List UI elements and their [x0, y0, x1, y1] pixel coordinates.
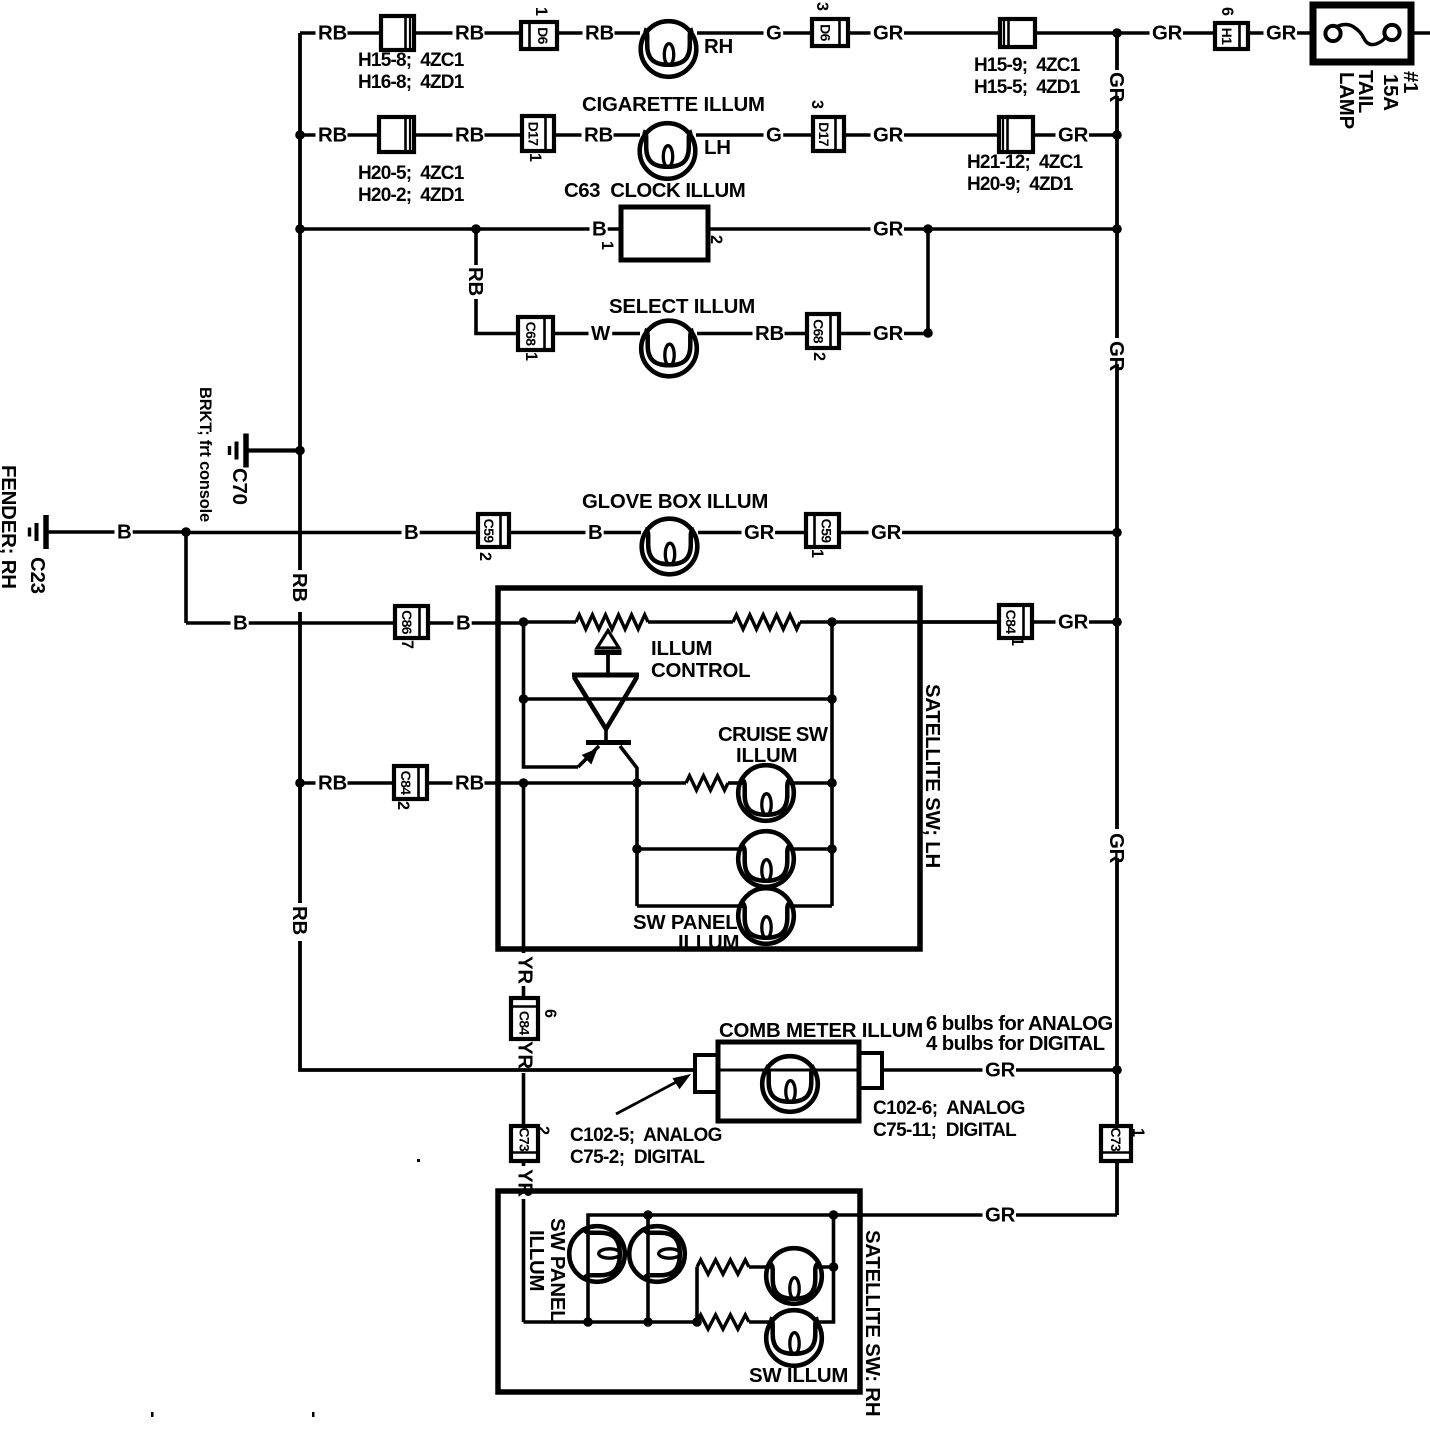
wire label GR row1 b	[1150, 26, 1184, 43]
svg-text:C23: C23	[26, 557, 48, 594]
wire label B near C23	[115, 525, 133, 542]
wire label GR row3	[871, 222, 905, 239]
ground C23 FENDER RH	[30, 515, 47, 549]
svg-text:GR: GR	[1058, 125, 1089, 147]
svg-text:RH: RH	[704, 36, 733, 58]
connector C84 pin6	[511, 998, 538, 1039]
wire to C59-2	[186, 531, 478, 535]
svg-text:3: 3	[808, 100, 826, 109]
svg-text:G: G	[766, 23, 782, 45]
svg-text:CIGARETTE ILLUM: CIGARETTE ILLUM	[582, 94, 765, 116]
wire collector riser x=637	[635, 783, 639, 906]
svg-text:GR: GR	[1105, 72, 1127, 103]
wire bulb glove to C59-1	[698, 531, 806, 535]
wire label RB row2 b	[453, 128, 485, 145]
svg-text:1: 1	[532, 7, 550, 16]
junction row2/V3	[1112, 130, 1122, 140]
wire R3 to bulb cruise	[728, 781, 744, 785]
wire corner to bulb sw3	[637, 904, 744, 908]
wire label B glove b	[586, 525, 604, 542]
svg-text:C59: C59	[819, 519, 835, 544]
wire label GR glove b	[869, 525, 903, 542]
junction riser/bulb2 row	[632, 844, 642, 854]
fuse connector H1	[1215, 23, 1248, 49]
svg-text:1: 1	[522, 352, 540, 361]
bulb cigarette LH	[640, 123, 696, 179]
wire RB row from V1 to C84-2	[300, 781, 394, 785]
bulb tail lamp RH	[641, 21, 697, 77]
connector D17 pin3	[813, 117, 844, 151]
wire clock pin2 to junction	[708, 227, 928, 231]
svg-text:SW ILLUM: SW ILLUM	[749, 1365, 848, 1387]
wire label B glove a	[402, 525, 420, 542]
wire H15-8 to D6	[414, 31, 521, 35]
connector C59 pin2	[478, 514, 509, 547]
svg-text:2: 2	[394, 801, 412, 810]
svg-text:GR: GR	[873, 219, 904, 241]
svg-text:6 bulbs for ANALOG: 6 bulbs for ANALOG	[926, 1013, 1113, 1035]
junction mid wire right	[827, 694, 837, 704]
speck noise c	[312, 1412, 315, 1417]
svg-text:H20-2; 4ZD1: H20-2; 4ZD1	[358, 185, 465, 206]
connector H15-8	[381, 16, 414, 50]
svg-text:H20-9; 4ZD1: H20-9; 4ZD1	[967, 174, 1074, 195]
wire bulb3 to right riser	[788, 904, 832, 908]
svg-text:7: 7	[398, 640, 416, 649]
svg-text:RB: RB	[464, 267, 486, 296]
svg-text:H20-5; 4ZC1: H20-5; 4ZC1	[358, 163, 465, 184]
svg-text:LH: LH	[704, 137, 731, 159]
junction row3/RB drop	[471, 224, 481, 234]
junction glove/V3	[1112, 528, 1122, 538]
svg-text:YR: YR	[514, 956, 536, 984]
svg-text:C68: C68	[811, 319, 827, 344]
wire RB row inside box	[524, 781, 638, 785]
wire C86 to satellite LH	[428, 621, 523, 625]
wire satellite LH to C84-1	[920, 620, 999, 624]
svg-text:GR: GR	[1105, 341, 1127, 372]
junction V1/RB row	[295, 778, 305, 788]
connector D6 pin3	[812, 19, 848, 46]
wire top rail	[588, 1215, 835, 1322]
connector D17 pin1	[522, 116, 554, 151]
arrow pointer to C102-5	[616, 1074, 691, 1114]
wire C70 to V1	[246, 448, 300, 452]
svg-text:15A: 15A	[1379, 74, 1401, 111]
svg-text:RB: RB	[585, 23, 614, 45]
svg-text:GR: GR	[1152, 23, 1183, 45]
svg-text:SATELLITE SW: RH: SATELLITE SW: RH	[861, 1230, 883, 1416]
bulb sw panel illum 3	[738, 888, 794, 944]
resistor R3 cruise	[686, 776, 728, 790]
wire V3 right main GR vertical (x=1117)	[1115, 33, 1119, 1215]
wire R2 out to C84-1	[800, 620, 999, 624]
svg-text:D17: D17	[816, 122, 832, 147]
bulb sw panel A	[569, 1226, 625, 1282]
wire YR entry to bottom rail	[524, 1320, 698, 1324]
clock C63 box	[621, 207, 708, 260]
svg-text:RB: RB	[455, 773, 484, 795]
svg-text:B: B	[592, 219, 607, 241]
bulb select illum	[641, 321, 697, 377]
junction comb/V3	[1112, 1065, 1122, 1075]
svg-text:3: 3	[813, 2, 831, 11]
svg-text:SW PANEL: SW PANEL	[546, 1218, 568, 1323]
speck noise b	[151, 1412, 154, 1417]
svg-text:RB: RB	[318, 23, 347, 45]
connector C73 pin2	[511, 1126, 538, 1161]
svg-text:1: 1	[526, 153, 544, 162]
svg-text:C75-2; DIGITAL: C75-2; DIGITAL	[570, 1147, 705, 1168]
wire label GR row1 c	[1264, 26, 1298, 43]
svg-text:GR: GR	[985, 1060, 1016, 1082]
wire bulb cruise to riser	[788, 781, 832, 785]
wire label GR glove a	[742, 525, 776, 542]
svg-text:D6: D6	[818, 24, 834, 42]
connector H15-9	[1000, 19, 1035, 47]
svg-text:GR: GR	[1105, 833, 1127, 864]
wire label G row2	[764, 128, 784, 145]
svg-text:2: 2	[810, 352, 828, 361]
ground C70 BRKT frt console	[230, 434, 247, 468]
svg-text:4 bulbs for DIGITAL: 4 bulbs for DIGITAL	[926, 1033, 1105, 1055]
svg-text:H16-8; 4ZD1: H16-8; 4ZD1	[358, 72, 465, 93]
fuse #1 15A TAIL LAMP	[1313, 5, 1411, 62]
svg-text:BRKT; frt console: BRKT; frt console	[196, 387, 214, 522]
wire D17-3 to H21-12	[844, 133, 999, 137]
wire label GR row2 b	[1056, 128, 1090, 145]
wire right riser rh box	[816, 1215, 834, 1322]
svg-text:FENDER; RH: FENDER; RH	[0, 465, 19, 589]
wire label RB row7 b	[453, 776, 485, 793]
wire right inner riser	[830, 622, 834, 906]
wire C23 to junction	[46, 530, 186, 534]
wire to R1	[524, 620, 577, 624]
bulb sw illum D	[766, 1310, 822, 1366]
wire label B row3	[590, 222, 608, 239]
svg-text:RB: RB	[584, 125, 613, 147]
wire C59-1 to V3	[839, 531, 1117, 535]
transistor Q1 PNP	[578, 729, 637, 783]
connector C68 pin1	[518, 317, 553, 350]
wire label RB row2 a	[316, 128, 348, 145]
junction bulbC/right riser	[829, 1262, 839, 1272]
connector H20-5	[379, 117, 414, 152]
svg-text:GR: GR	[873, 23, 904, 45]
junction cruise/riser	[827, 778, 837, 788]
svg-text:COMB METER ILLUM: COMB METER ILLUM	[719, 1020, 923, 1042]
speck noise a	[417, 1159, 420, 1162]
svg-text:B: B	[456, 613, 471, 635]
svg-text:RB: RB	[455, 23, 484, 45]
box SATELLITE SW LH	[498, 588, 920, 949]
svg-text:ILLUM: ILLUM	[525, 1230, 547, 1291]
svg-text:LAMP: LAMP	[1335, 72, 1357, 129]
wire comb meter feed from V1	[300, 1069, 695, 1070]
connector C84 pin2	[394, 766, 427, 799]
wire V4 drop x=928	[926, 229, 930, 333]
junction V1/row2	[295, 130, 305, 140]
svg-text:C73: C73	[516, 1127, 532, 1152]
connector C84 pin1	[999, 605, 1032, 638]
svg-text:#1: #1	[1399, 71, 1421, 93]
svg-text:D17: D17	[526, 122, 542, 147]
svg-text:SELECT ILLUM: SELECT ILLUM	[609, 296, 755, 318]
wire R1 to R2	[648, 620, 733, 624]
svg-text:C63 CLOCK ILLUM: C63 CLOCK ILLUM	[564, 180, 745, 202]
junction RB row/collector riser	[632, 778, 642, 788]
wire left inner riser	[524, 622, 579, 767]
wire R4 to bulb C	[749, 1265, 772, 1269]
svg-text:1: 1	[1129, 1128, 1147, 1137]
svg-text:C68: C68	[523, 322, 539, 347]
wire D6-3 to H15-9	[848, 31, 1000, 35]
svg-text:H15-9; 4ZC1: H15-9; 4ZC1	[974, 55, 1081, 76]
wire bulbB riser	[646, 1215, 650, 1322]
svg-text:C84: C84	[398, 771, 414, 796]
svg-text:GR: GR	[873, 323, 904, 345]
wire label GR comb	[983, 1063, 1017, 1080]
wire row1 from V1 to H15-8	[300, 31, 381, 35]
svg-text:GLOVE BOX ILLUM: GLOVE BOX ILLUM	[582, 491, 768, 513]
junction C23 wire split	[181, 527, 191, 537]
junction B/top inner wire	[519, 617, 529, 627]
svg-text:H15-5; 4ZD1: H15-5; 4ZD1	[974, 77, 1081, 98]
svg-text:C73: C73	[1108, 1127, 1124, 1152]
bulb cruise sw illum	[738, 765, 794, 821]
wire bulb2 to right riser	[788, 847, 832, 851]
junction row3/V3	[1112, 224, 1122, 234]
wire to R3	[637, 781, 686, 785]
svg-text:H21-12; 4ZC1: H21-12; 4ZC1	[967, 152, 1083, 173]
svg-text:6: 6	[541, 1009, 559, 1018]
svg-text:RB: RB	[455, 125, 484, 147]
wire bulb LH to D17-3	[696, 133, 813, 137]
wire H1 to tail lamp	[1248, 31, 1313, 35]
wire label RB row4	[753, 326, 785, 343]
svg-text:RB: RB	[755, 323, 784, 345]
wire row2 from V1 to H20-5	[300, 133, 379, 137]
wire C84-2 into satellite LH	[427, 781, 524, 785]
svg-text:RB: RB	[318, 773, 347, 795]
bulb comb meter illum	[762, 1056, 818, 1112]
junction row1/V3	[1112, 28, 1122, 38]
svg-text:CRUISE SW: CRUISE SW	[718, 724, 829, 746]
op-amp triangle illum control	[572, 675, 639, 729]
wire label RB row1 a	[316, 26, 348, 43]
wire tail lamp to edge	[1411, 31, 1430, 35]
svg-text:B: B	[588, 522, 603, 544]
wire junction to V3	[928, 227, 1117, 231]
wire mid horizontal	[524, 697, 833, 701]
svg-text:B: B	[117, 522, 132, 544]
junction C84-1 row/V3	[1112, 617, 1122, 627]
resistor R5	[697, 1315, 749, 1329]
bulb glove box illum	[642, 519, 698, 575]
svg-text:SATELLITE SW; LH: SATELLITE SW; LH	[921, 684, 943, 868]
svg-text:C59: C59	[481, 519, 497, 544]
svg-text:D6: D6	[535, 27, 551, 45]
wire label GR row1 a	[871, 26, 905, 43]
wire C59-2 to bulb glove	[509, 531, 641, 535]
svg-text:6: 6	[1218, 7, 1236, 16]
bulb sw panel illum 2	[738, 831, 794, 887]
bulb sw panel B	[629, 1226, 685, 1282]
box SATELLITE SW RH	[498, 1191, 860, 1392]
svg-text:1: 1	[598, 241, 616, 250]
wire label GR C84-1	[1056, 615, 1090, 632]
wire YR riser below box	[522, 783, 526, 1322]
wire label GR row2 a	[871, 128, 905, 145]
wire R5 to bulb D	[749, 1320, 772, 1324]
wire label W row4	[589, 326, 613, 343]
svg-text:2: 2	[534, 1126, 552, 1135]
junction top wire/right riser	[827, 617, 837, 627]
svg-text:C70: C70	[228, 468, 250, 505]
resistor R4	[697, 1260, 749, 1274]
svg-text:C84: C84	[516, 1011, 532, 1036]
connector C59 pin1	[806, 514, 839, 547]
connector C73 pin1	[1101, 1126, 1131, 1161]
wire C68-1 to bulb select	[553, 332, 640, 336]
junction bulbA/bottom rail	[583, 1317, 593, 1327]
wire V1 left main RB vertical (x=300)	[298, 33, 302, 1069]
wire bulb RH to D6-3	[697, 31, 812, 35]
resistor R1 illum control	[576, 615, 648, 629]
wiper arrow of illum control	[595, 631, 622, 675]
svg-text:GR: GR	[985, 1205, 1016, 1227]
wire bulb C to right riser	[816, 1265, 834, 1269]
wire H15-9 to fuse H1	[1035, 31, 1215, 35]
wire B row from V2 to C86	[186, 621, 395, 625]
svg-text:GR: GR	[744, 522, 775, 544]
junction V1/row3	[295, 224, 305, 234]
svg-text:G: G	[766, 125, 782, 147]
wire RB drop x=476	[476, 229, 518, 334]
wire label B row6 b	[454, 616, 472, 633]
wire label RB row7 a	[316, 776, 348, 793]
junction bulb2/right riser	[827, 844, 837, 854]
junction top rail/right riser	[829, 1210, 839, 1220]
svg-text:H15-8; 4ZC1: H15-8; 4ZC1	[358, 50, 465, 71]
wire V2 drop x=186	[184, 532, 188, 623]
svg-text:RB: RB	[288, 573, 310, 602]
svg-text:2: 2	[476, 552, 494, 561]
connector C86 pin7	[395, 606, 428, 638]
svg-text:RB: RB	[288, 906, 310, 935]
wire label RB row1 b	[453, 26, 485, 43]
wire R4 riser	[695, 1267, 699, 1322]
svg-text:C84: C84	[1003, 610, 1019, 635]
svg-text:GR: GR	[1058, 612, 1089, 634]
wire row3 from V1 to clock	[300, 227, 621, 231]
junction row3/V4	[923, 224, 933, 234]
svg-text:C102-6; ANALOG: C102-6; ANALOG	[873, 1098, 1025, 1119]
svg-text:GR: GR	[873, 125, 904, 147]
junction bulbB/bottom rail	[643, 1317, 653, 1327]
svg-text:GR: GR	[871, 522, 902, 544]
junction RB row/YR riser	[519, 778, 529, 788]
svg-text:SW PANEL: SW PANEL	[633, 912, 738, 934]
svg-text:C102-5; ANALOG: C102-5; ANALOG	[570, 1125, 722, 1146]
junction mid wire left	[519, 694, 529, 704]
resistor R2 illum control	[733, 615, 800, 629]
svg-text:B: B	[233, 613, 248, 635]
svg-text:B: B	[404, 522, 419, 544]
junction V4/row4	[923, 328, 933, 338]
wire label RB row1 c	[583, 26, 615, 43]
wire label GR bottom	[983, 1208, 1017, 1225]
wire H21-12 to V3	[1033, 133, 1117, 137]
svg-text:W: W	[591, 323, 611, 345]
junction bulbB/top rail	[643, 1210, 653, 1220]
svg-text:C75-11; DIGITAL: C75-11; DIGITAL	[873, 1120, 1017, 1141]
bulb sw illum C	[766, 1248, 822, 1304]
junction C70/V1	[295, 446, 305, 456]
wire riser to bulb sw2	[637, 847, 744, 851]
connector D6 pin1	[521, 22, 557, 49]
svg-text:1: 1	[808, 549, 826, 558]
svg-text:CONTROL: CONTROL	[651, 660, 750, 682]
wire C68-2 to junction	[839, 332, 928, 336]
svg-text:YR: YR	[514, 1041, 536, 1069]
wire C84-1 to V3	[1032, 620, 1117, 624]
wire bulb select to C68-2	[697, 332, 807, 336]
wire H20-5 to D17	[414, 133, 522, 137]
svg-text:ILLUM: ILLUM	[678, 932, 739, 954]
svg-text:1: 1	[1008, 637, 1026, 646]
wire D6 to bulb RH	[557, 31, 640, 35]
wire comb meter to V3	[882, 1068, 1117, 1072]
svg-text:2: 2	[707, 235, 725, 244]
wire label B row6 a	[231, 616, 249, 633]
comb meter box with tabs	[695, 1042, 882, 1121]
wire D17 to bulb LH	[554, 133, 640, 137]
wire label GR row4	[871, 326, 905, 343]
svg-text:H1: H1	[1219, 28, 1235, 46]
svg-text:GR: GR	[1266, 23, 1297, 45]
svg-text:RB: RB	[318, 125, 347, 147]
connector H21-12	[999, 117, 1033, 152]
wire label G row1	[764, 26, 784, 43]
svg-text:C86: C86	[399, 610, 415, 635]
wire label RB row2 c	[582, 128, 614, 145]
svg-text:ILLUM: ILLUM	[651, 638, 712, 660]
junction R4 riser/bottom rail	[692, 1317, 702, 1327]
connector C68 pin2	[807, 314, 839, 348]
wire V3 bottom turn to satellite RH	[835, 1213, 1117, 1217]
